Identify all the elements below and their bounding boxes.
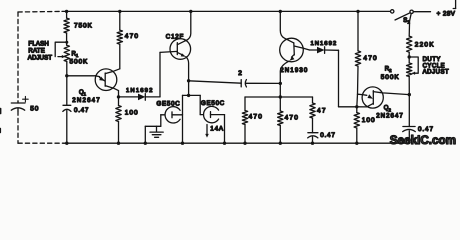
node bottom rail / 470 no.2b [279, 142, 282, 145]
svg-text:GE50C: GE50C [157, 101, 181, 108]
svg-text:GE50C: GE50C [201, 100, 225, 107]
node bottom rail / 470 no.2a [243, 142, 246, 145]
node junction top rail / C12F collector [189, 10, 192, 13]
label S1 [403, 18, 410, 25]
node bottom rail / 100 no.1 [117, 142, 120, 145]
wire switch to +28V [413, 11, 430, 13]
svg-text:2N2647: 2N2647 [72, 97, 101, 104]
capacitor 0.47 no.1 [63, 76, 71, 143]
diode 1N1692 no.1 [138, 94, 145, 101]
ground [145, 126, 163, 143]
resistor 47 [310, 97, 315, 133]
wire lamp 1 to ground bar [160, 115, 162, 127]
svg-text:SeekIC.com: SeekIC.com [390, 134, 456, 147]
node Q2 B1 junction [355, 105, 358, 108]
wire emitter node down [188, 81, 190, 96]
value label 470 no.2b [285, 114, 299, 121]
wire 2N1930 emitter down [280, 61, 289, 83]
svg-text:1N1692: 1N1692 [311, 41, 338, 47]
resistor 100 no.1 [116, 97, 121, 143]
wiper arm of R1 [55, 41, 68, 59]
svg-text:0.47: 0.47 [74, 107, 89, 114]
wire C12F emitter down [186, 57, 189, 81]
value label 750K [74, 22, 93, 29]
capacitor 0.47 no.3 [308, 133, 318, 144]
svg-text:470: 470 [285, 114, 299, 121]
label + polarity 50uF [23, 96, 29, 102]
wire dashed module bottom edge [18, 142, 64, 144]
wire R1 bottom to emitter node [66, 62, 68, 76]
value label 220K [415, 41, 435, 48]
wire lamp 2 to bottom rail [224, 115, 226, 144]
node Q1 emitter junction [65, 74, 68, 77]
capacitor 2uF [241, 80, 246, 87]
capacitor 0.47 no.2 [403, 95, 416, 144]
wire emitter column [279, 83, 281, 97]
wire tie bar to rail past lamp 1 [182, 95, 184, 143]
svg-text:50: 50 [30, 105, 39, 112]
node 100 no.2 to bottom rail [355, 142, 358, 145]
svg-text:14A: 14A [210, 126, 224, 133]
label 2N1930 [280, 67, 308, 74]
wire C12F collector to top rail [186, 11, 191, 40]
label 2N2647 Q2 [376, 113, 404, 120]
wire diode no.2 to Q2 junction [325, 50, 357, 107]
value label 2 [238, 70, 242, 77]
resistor 470 no.3 [355, 11, 360, 106]
wire top rail to 2N1930 [280, 11, 294, 43]
wire node to diode no.1 [119, 96, 139, 98]
wire bottom return rail [64, 142, 409, 144]
label +28V [437, 10, 456, 17]
svg-text:2N1930: 2N1930 [280, 67, 308, 74]
svg-text:2N2647: 2N2647 [376, 113, 404, 120]
node resistor bar junction [279, 95, 282, 98]
label 1N1692 no.1 [126, 88, 154, 94]
svg-text:R1: R1 [72, 52, 79, 59]
label 2N2647 Q1 [72, 97, 101, 104]
current arrow 14A [205, 125, 209, 138]
node wiper junction [408, 55, 411, 58]
resistor 470 no.1 [117, 11, 122, 68]
wire diode no.1 to C12F base corner [145, 52, 160, 97]
wire dashed module left edge lower [17, 111, 19, 143]
wire resistor bar [245, 96, 313, 98]
wire 2N1930 collector to diode no.2 [303, 48, 317, 50]
svg-text:100: 100 [125, 109, 139, 116]
transistor 2N1930 [280, 38, 304, 62]
resistor 750K [64, 11, 69, 45]
capacitor 50uF electrolytic [11, 102, 25, 112]
page edge tick top right [453, 0, 455, 9]
wire top supply rail [62, 10, 391, 12]
label Q2 [384, 106, 392, 113]
svg-text:750K: 750K [74, 22, 93, 29]
potentiometer R1 500K [64, 45, 69, 61]
label GE50C no.2 [201, 100, 225, 107]
value label 500K R1 [70, 59, 89, 66]
label 14A [210, 126, 224, 133]
wire capacitor 2 to 2N1930 emitter column [246, 82, 280, 84]
svg-text:Q2: Q2 [384, 106, 392, 113]
watermark SeekIC.com [390, 134, 456, 147]
wire Q2 emitter lead [358, 93, 363, 95]
label DUTY CYCLE ADJUST [423, 57, 450, 76]
svg-text:220K: 220K [415, 41, 435, 48]
label R1 [72, 52, 79, 59]
node junction top rail / 470 no.1 [118, 10, 121, 13]
svg-text:RATE: RATE [28, 48, 45, 55]
svg-text:Q1: Q1 [79, 90, 87, 97]
diode 1N1692 no.2 [317, 47, 325, 54]
wiper arm of R2 [409, 57, 418, 75]
svg-text:ADJUST: ADJUST [28, 55, 52, 62]
svg-text:470: 470 [125, 33, 139, 40]
node C12F emitter junction [187, 79, 190, 82]
wire C12F base lead [160, 51, 177, 52]
resistor 470 no.2b [278, 97, 283, 143]
wire Q1 B1 to node [118, 91, 120, 97]
transistor C12F [170, 39, 191, 60]
svg-text:2: 2 [238, 70, 242, 77]
node bottom rail / 0.47 no.1 [65, 142, 68, 145]
svg-text:R2: R2 [385, 67, 392, 74]
label FLASH RATE ADJUST [28, 41, 52, 62]
value label 50 [30, 105, 39, 112]
label C12F [166, 33, 184, 40]
svg-text:470: 470 [249, 113, 263, 120]
switch S1 [391, 10, 414, 20]
value label 470 no.2a [249, 113, 263, 120]
lamp GE50C no.2 [204, 106, 225, 122]
wire dashed module top edge [18, 10, 62, 13]
svg-text:500K: 500K [70, 59, 89, 66]
node lamp tie junction [187, 94, 190, 97]
node junction top rail / 470 no.3 [356, 10, 359, 13]
wire emitter node to Q1 [67, 75, 96, 77]
node bottom rail / lamp tie [181, 142, 184, 145]
transistor Q2 2N2647 [357, 87, 410, 108]
label Q1 [79, 90, 87, 97]
value label 47 [317, 107, 327, 114]
node junction top rail / 750K [65, 10, 68, 13]
svg-text:CYCLE: CYCLE [423, 63, 446, 69]
transistor Q1 2N2647 [95, 69, 120, 91]
value label 470 no.1 [125, 33, 139, 40]
potentiometer R2 500K [407, 57, 412, 77]
value label 0.47 no.1 [74, 107, 89, 114]
wire R2 to Q2 B2 node [408, 77, 410, 95]
label 1N1692 no.2 [311, 41, 338, 47]
svg-text:500K: 500K [381, 74, 400, 81]
wire lamp tie bar [183, 94, 201, 96]
svg-text:470: 470 [363, 55, 377, 62]
svg-text:0.47: 0.47 [418, 126, 434, 133]
resistor 220K [407, 36, 412, 57]
svg-text:DUTY: DUTY [423, 57, 441, 63]
label GE50C no.1 [157, 101, 181, 108]
svg-text:1N1692: 1N1692 [126, 88, 154, 94]
value label 500K R2 [381, 74, 400, 81]
node Q1 B1 junction [117, 95, 120, 98]
value label 470 no.3 [363, 55, 377, 62]
wire tie bar to lamp 2 [200, 95, 203, 114]
resistor 100 no.2 [354, 107, 359, 143]
value label 100 no.2 [362, 117, 376, 124]
svg-text:ADJUST: ADJUST [423, 70, 450, 76]
svg-text:47: 47 [317, 107, 327, 114]
wire emitter node to capacitor 2 [189, 81, 242, 83]
node ground to bottom rail [144, 142, 147, 145]
node junction top rail / 2N1930 [279, 10, 282, 13]
value label 0.47 no.3 [320, 132, 335, 139]
label R2 [385, 67, 392, 74]
value label 100 no.1 [125, 109, 139, 116]
svg-text:100: 100 [362, 117, 376, 124]
node bottom rail / lamp 2 [223, 142, 226, 145]
svg-text:0.47: 0.47 [320, 132, 335, 139]
lamp GE50C no.1 [161, 107, 183, 123]
svg-text:+ 28V: + 28V [437, 10, 456, 17]
node capacitor 2 junction [279, 82, 282, 85]
resistor 470 no.2a [242, 97, 247, 143]
svg-text:FLASH: FLASH [28, 41, 49, 48]
page edge tick left [0, 109, 2, 133]
value label 0.47 no.2 [418, 126, 434, 133]
node bottom rail / 0.47 no.3 [311, 142, 314, 145]
svg-text:C12F: C12F [166, 33, 184, 40]
node Q2 B2 junction [408, 93, 411, 96]
wire dashed module left edge upper [17, 12, 19, 102]
wire switch to 220K [409, 14, 411, 37]
